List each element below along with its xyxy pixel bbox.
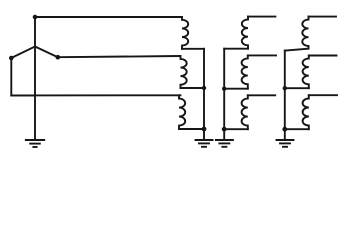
wire: wye neutral vertical (phase-A tap down to ground) — [34, 17, 36, 139]
winding T1-A (unit 1 top coil) — [182, 17, 188, 49]
node C (phase C terminal dot) — [9, 56, 14, 61]
wire: T3-C bottom lead to neutral bus 3 — [285, 128, 309, 130]
winding T3-B (unit 3 middle coil) — [303, 56, 309, 89]
ground (unit 1 neutral) — [196, 140, 213, 147]
wire: wye branch to phase C terminal — [11, 47, 35, 59]
wire: T2-C top terminal lead — [248, 94, 275, 96]
node: junction T1-C / bus 1 — [202, 127, 207, 132]
wire: wye branch to phase B terminal — [35, 47, 58, 58]
wire: phase C line — [11, 94, 180, 96]
wire: T1-C bottom lead to neutral bus 1 — [179, 128, 204, 130]
wire: T2-A top terminal lead — [248, 16, 275, 18]
winding T2-C (unit 2 bottom coil) — [242, 95, 248, 129]
wire: neutral bus 2 (unit 2) — [223, 49, 225, 139]
wire: phase C vertical drop — [11, 58, 35, 95]
ground (wye neutral) — [26, 140, 44, 147]
winding T2-A (unit 2 top coil) — [242, 17, 248, 49]
node: junction T3-C / bus 3 — [282, 127, 287, 132]
winding T1-B (unit 1 middle coil) — [181, 56, 187, 88]
wire: T3-B bottom lead to neutral bus 3 — [285, 87, 309, 89]
node: junction T2-B / bus 2 — [222, 87, 226, 91]
wire: T1-B bottom lead to neutral bus 1 — [181, 87, 205, 89]
wire: neutral bus 1 (unit 1) — [203, 49, 205, 139]
wire: T3-B top terminal lead — [309, 55, 337, 57]
wire: T3-C top terminal lead — [309, 94, 337, 96]
node: junction T1-B / bus 1 — [202, 86, 206, 90]
ground (unit 2 neutral) — [216, 140, 233, 147]
wire: T1-A bottom lead to neutral bus 1 — [182, 48, 204, 50]
winding T3-A (unit 3 top coil) — [302, 17, 308, 49]
wire: T2-B top terminal lead — [248, 54, 276, 56]
wire: T2-B bottom lead to neutral bus 2 — [224, 88, 248, 90]
wire: phase B line — [58, 56, 179, 57]
wire: T3-A top terminal lead — [309, 16, 337, 18]
wire: T2-A bottom lead to neutral bus 2 — [224, 48, 248, 50]
winding T1-C (unit 1 bottom coil) — [179, 95, 185, 129]
wire: T3-A bottom lead to neutral bus 3 — [285, 49, 309, 51]
node: junction T3-B / bus 3 — [283, 86, 287, 90]
winding T3-C (unit 3 bottom coil) — [303, 95, 309, 129]
node A (top junction dot, phase A) — [33, 15, 38, 20]
wire: T2-C bottom lead to neutral bus 2 — [224, 128, 248, 130]
wire: neutral bus 3 (unit 3) — [284, 51, 286, 139]
ground (unit 3 neutral) — [277, 140, 294, 147]
wire: phase A line — [35, 16, 182, 18]
node B (phase B terminal dot) — [56, 55, 61, 60]
winding T2-B (unit 2 middle coil) — [242, 55, 248, 88]
node: junction T2-C / bus 2 — [222, 127, 227, 132]
